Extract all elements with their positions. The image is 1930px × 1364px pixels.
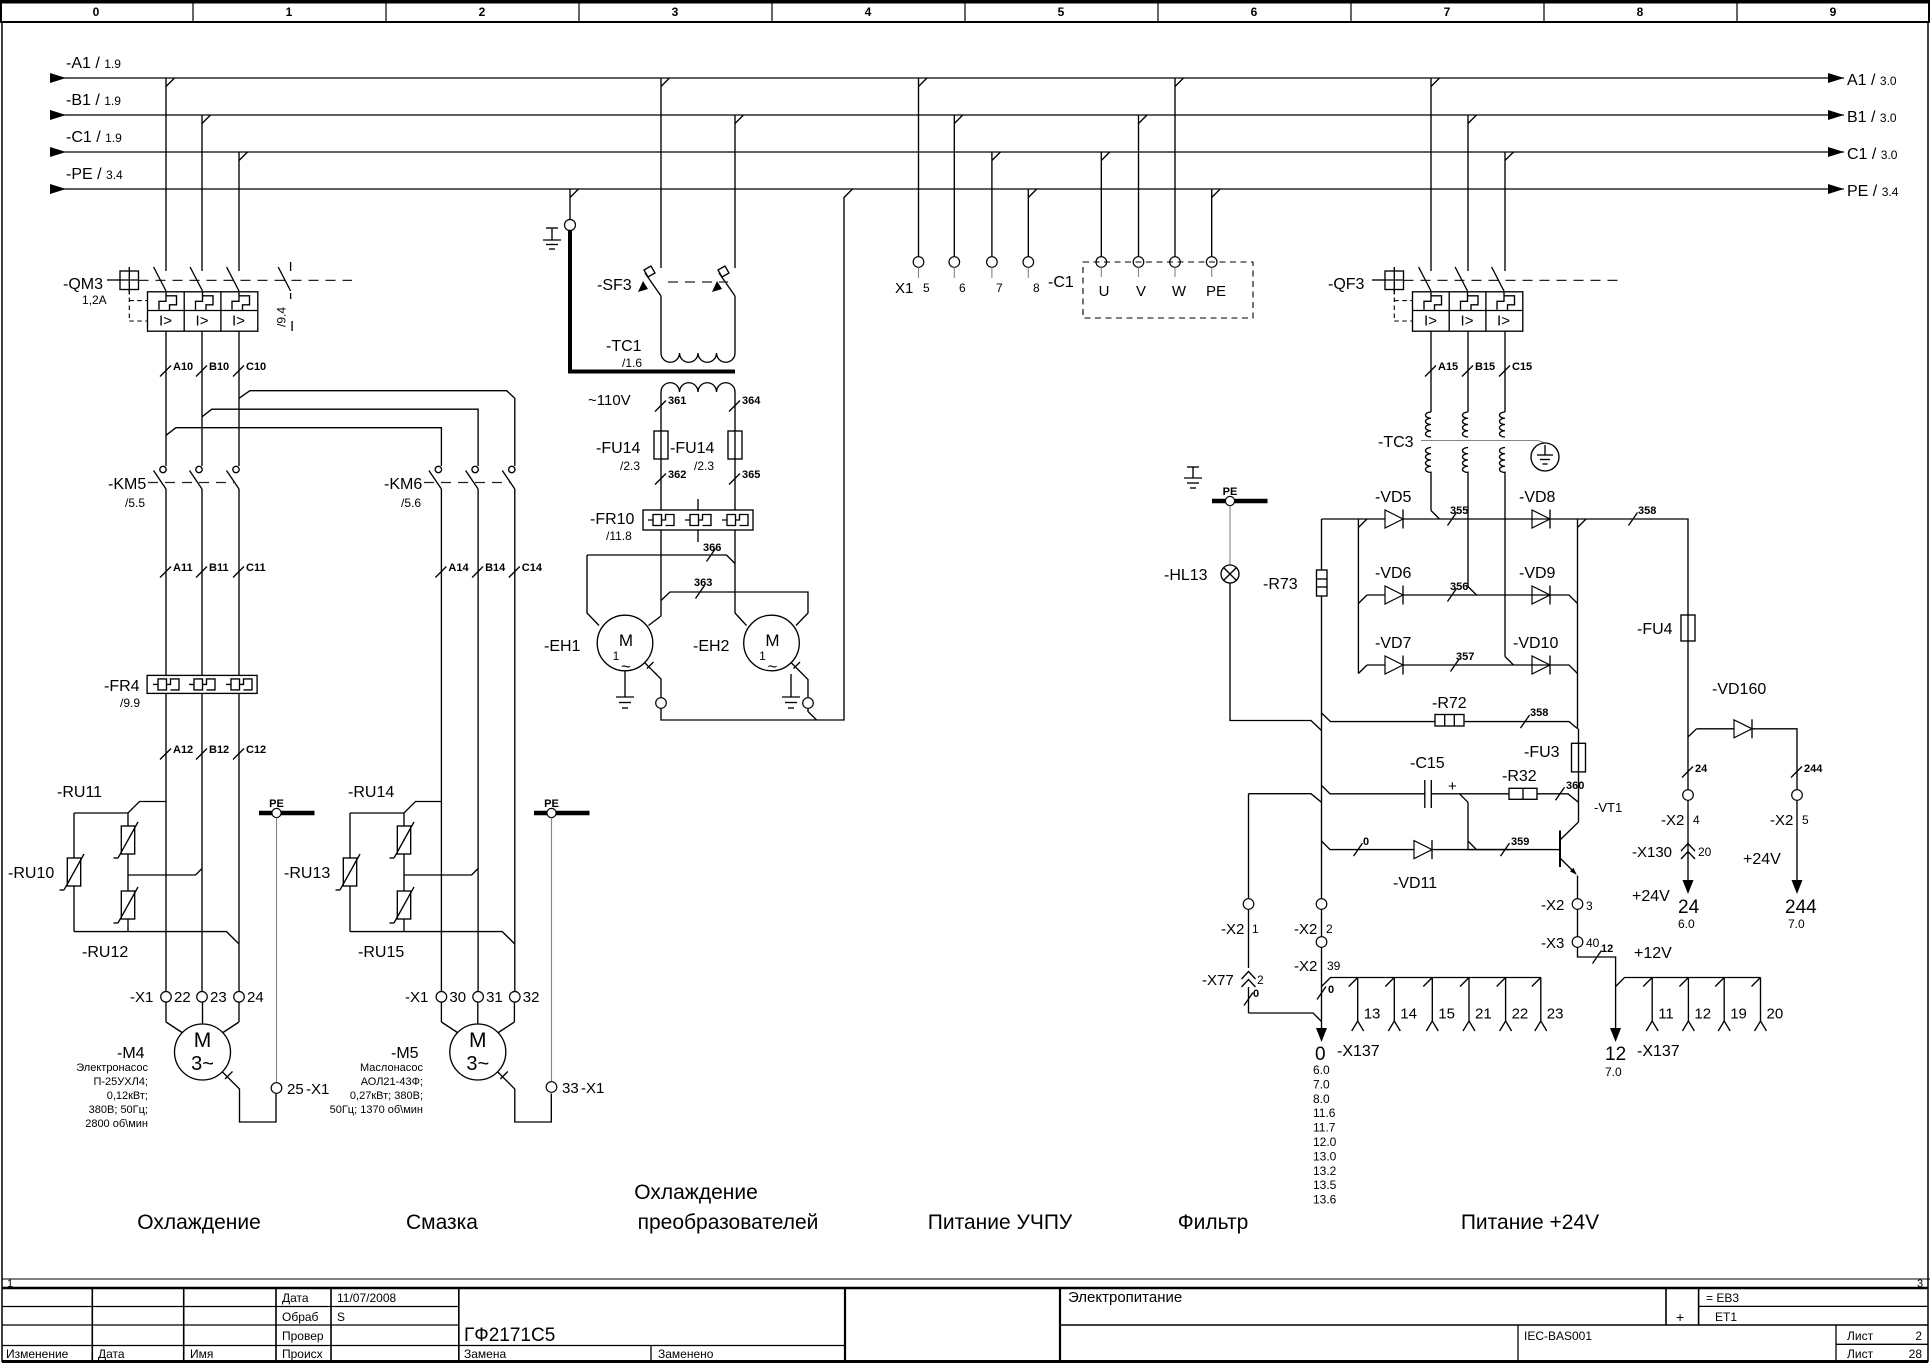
svg-text:11.7: 11.7 bbox=[1313, 1121, 1336, 1135]
svg-text:Электронасос: Электронасос bbox=[76, 1062, 148, 1074]
svg-text:-X3: -X3 bbox=[1541, 935, 1564, 952]
svg-text:33: 33 bbox=[562, 1080, 579, 1097]
svg-text:12: 12 bbox=[1694, 1006, 1711, 1023]
svg-text:380В; 50Гц;: 380В; 50Гц; bbox=[89, 1104, 148, 1116]
svg-text:-R73: -R73 bbox=[1263, 576, 1298, 593]
svg-text:23: 23 bbox=[1547, 1006, 1564, 1023]
svg-text:12: 12 bbox=[1605, 1044, 1626, 1065]
svg-text:3~: 3~ bbox=[466, 1053, 489, 1075]
svg-text:24: 24 bbox=[1695, 763, 1708, 775]
svg-text:8: 8 bbox=[1637, 5, 1644, 19]
svg-text:U: U bbox=[1099, 283, 1110, 300]
svg-text:ГФ2171С5: ГФ2171С5 bbox=[464, 1325, 555, 1346]
svg-text:24: 24 bbox=[1678, 897, 1700, 918]
svg-text:-X77: -X77 bbox=[1202, 972, 1234, 989]
svg-text:21: 21 bbox=[1475, 1006, 1492, 1023]
svg-text:19: 19 bbox=[1730, 1006, 1747, 1023]
svg-text:-X2: -X2 bbox=[1661, 812, 1684, 829]
svg-text:-X130: -X130 bbox=[1632, 844, 1672, 861]
svg-text:Обраб: Обраб bbox=[282, 1310, 319, 1324]
svg-text:22: 22 bbox=[1512, 1006, 1529, 1023]
svg-text:5: 5 bbox=[1802, 813, 1809, 827]
svg-text:-RU14: -RU14 bbox=[348, 784, 394, 801]
svg-text:A10: A10 bbox=[173, 361, 193, 373]
svg-text:32: 32 bbox=[523, 989, 540, 1006]
svg-text:1: 1 bbox=[286, 5, 293, 19]
svg-text:363: 363 bbox=[694, 577, 712, 589]
svg-text:I>: I> bbox=[196, 313, 209, 330]
svg-text:X1: X1 bbox=[895, 280, 913, 297]
svg-text:-R72: -R72 bbox=[1432, 695, 1467, 712]
svg-text:ET1: ET1 bbox=[1715, 1310, 1737, 1324]
svg-text:12.0: 12.0 bbox=[1313, 1135, 1337, 1149]
svg-text:V: V bbox=[1136, 283, 1146, 300]
svg-text:Дата: Дата bbox=[282, 1291, 309, 1305]
svg-text:I>: I> bbox=[232, 313, 245, 330]
svg-text:7.0: 7.0 bbox=[1313, 1077, 1330, 1091]
svg-text:-KM5: -KM5 bbox=[108, 476, 146, 493]
svg-text:12: 12 bbox=[1601, 943, 1613, 955]
svg-text:-HL13: -HL13 bbox=[1164, 567, 1208, 584]
svg-text:A15: A15 bbox=[1438, 361, 1458, 373]
svg-text:~: ~ bbox=[768, 657, 778, 676]
svg-text:-PE / 3.4: -PE / 3.4 bbox=[66, 166, 123, 183]
svg-text:B15: B15 bbox=[1475, 361, 1495, 373]
svg-text:13.0: 13.0 bbox=[1313, 1149, 1337, 1163]
svg-text:25: 25 bbox=[287, 1081, 304, 1098]
svg-text:-X2: -X2 bbox=[1221, 921, 1244, 938]
svg-text:11/07/2008: 11/07/2008 bbox=[337, 1291, 396, 1305]
svg-text:4: 4 bbox=[865, 5, 872, 19]
svg-text:~110V: ~110V bbox=[588, 392, 631, 409]
svg-text:+24V: +24V bbox=[1632, 888, 1670, 905]
svg-text:364: 364 bbox=[742, 395, 761, 407]
svg-text:-X2: -X2 bbox=[1770, 812, 1793, 829]
svg-text:-X1: -X1 bbox=[581, 1080, 604, 1097]
svg-text:Лист: Лист bbox=[1847, 1347, 1874, 1361]
svg-text:~: ~ bbox=[621, 657, 631, 676]
svg-text:39: 39 bbox=[1327, 959, 1341, 973]
svg-text:-C15: -C15 bbox=[1410, 755, 1445, 772]
svg-text:0: 0 bbox=[1363, 836, 1369, 848]
svg-text:Охлаждение: Охлаждение bbox=[137, 1211, 261, 1234]
svg-text:7: 7 bbox=[1444, 5, 1451, 19]
svg-text:11: 11 bbox=[1658, 1006, 1674, 1023]
svg-text:362: 362 bbox=[668, 469, 686, 481]
svg-text:B1 / 3.0: B1 / 3.0 bbox=[1847, 109, 1897, 126]
svg-text:2: 2 bbox=[479, 5, 486, 19]
svg-text:I>: I> bbox=[1461, 313, 1474, 330]
svg-text:/1.6: /1.6 bbox=[622, 356, 642, 370]
svg-text:1: 1 bbox=[759, 649, 766, 663]
svg-text:-VD160: -VD160 bbox=[1712, 681, 1766, 698]
svg-text:8: 8 bbox=[1033, 281, 1040, 295]
svg-text:361: 361 bbox=[668, 395, 686, 407]
svg-text:358: 358 bbox=[1530, 707, 1548, 719]
svg-text:4: 4 bbox=[1693, 813, 1700, 827]
svg-text:B11: B11 bbox=[209, 562, 229, 574]
svg-text:+24V: +24V bbox=[1743, 851, 1781, 868]
svg-text:-R32: -R32 bbox=[1502, 768, 1537, 785]
svg-text:PE: PE bbox=[1206, 283, 1226, 300]
svg-text:-EH2: -EH2 bbox=[693, 638, 730, 655]
svg-text:-QF3: -QF3 bbox=[1328, 276, 1365, 293]
svg-text:B14: B14 bbox=[485, 562, 506, 574]
svg-text:-RU11: -RU11 bbox=[57, 784, 102, 801]
svg-text:3: 3 bbox=[1586, 899, 1593, 913]
svg-text:-RU13: -RU13 bbox=[284, 865, 330, 882]
svg-text:6.0: 6.0 bbox=[1313, 1063, 1330, 1077]
svg-text:-QM3: -QM3 bbox=[63, 276, 103, 293]
svg-text:244: 244 bbox=[1804, 763, 1823, 775]
svg-text:Происх: Происх bbox=[282, 1347, 323, 1361]
svg-text:A14: A14 bbox=[448, 562, 469, 574]
svg-text:8.0: 8.0 bbox=[1313, 1092, 1330, 1106]
svg-text:Маслонасос: Маслонасос bbox=[360, 1062, 423, 1074]
svg-text:-X137: -X137 bbox=[1637, 1043, 1680, 1060]
svg-text:15: 15 bbox=[1438, 1006, 1455, 1023]
svg-text:0,27кВт; 380В;: 0,27кВт; 380В; bbox=[350, 1090, 423, 1102]
svg-text:/2.3: /2.3 bbox=[620, 459, 640, 473]
svg-text:50Гц; 1370 об\мин: 50Гц; 1370 об\мин bbox=[330, 1104, 423, 1116]
svg-text:7.0: 7.0 bbox=[1605, 1065, 1622, 1079]
svg-text:-VD10: -VD10 bbox=[1513, 635, 1558, 652]
svg-text:-VD7: -VD7 bbox=[1375, 635, 1412, 652]
svg-text:31: 31 bbox=[486, 989, 503, 1006]
svg-text:28: 28 bbox=[1909, 1347, 1923, 1361]
svg-text:-VD5: -VD5 bbox=[1375, 489, 1412, 506]
svg-text:0: 0 bbox=[93, 5, 100, 19]
svg-text:0,12кВт;: 0,12кВт; bbox=[107, 1090, 148, 1102]
svg-text:M: M bbox=[194, 1029, 212, 1052]
svg-text:B10: B10 bbox=[209, 361, 229, 373]
svg-text:/9.4: /9.4 bbox=[275, 307, 289, 327]
svg-text:-X2: -X2 bbox=[1294, 921, 1317, 938]
svg-text:Изменение: Изменение bbox=[6, 1347, 69, 1361]
svg-text:244: 244 bbox=[1785, 897, 1817, 918]
svg-text:Лист: Лист bbox=[1847, 1329, 1874, 1343]
svg-text:A11: A11 bbox=[173, 562, 193, 574]
svg-text:C15: C15 bbox=[1512, 361, 1532, 373]
svg-text:-X2: -X2 bbox=[1541, 897, 1564, 914]
svg-text:5: 5 bbox=[1058, 5, 1065, 19]
svg-text:-C1 / 1.9: -C1 / 1.9 bbox=[66, 129, 122, 146]
svg-text:23: 23 bbox=[210, 989, 227, 1006]
svg-text:S: S bbox=[337, 1310, 345, 1324]
svg-text:-M5: -M5 bbox=[391, 1045, 419, 1062]
svg-text:-X1: -X1 bbox=[130, 989, 153, 1006]
svg-text:/5.5: /5.5 bbox=[125, 496, 145, 510]
svg-text:преобразователей: преобразователей bbox=[638, 1211, 819, 1234]
svg-text:6.0: 6.0 bbox=[1678, 917, 1695, 931]
svg-text:C10: C10 bbox=[246, 361, 266, 373]
svg-text:-FU14: -FU14 bbox=[596, 440, 641, 457]
svg-text:13.6: 13.6 bbox=[1313, 1193, 1337, 1207]
svg-text:-X1: -X1 bbox=[306, 1081, 329, 1098]
svg-text:M: M bbox=[619, 631, 633, 650]
svg-text:2800 об\мин: 2800 об\мин bbox=[85, 1118, 148, 1130]
svg-text:-C1: -C1 bbox=[1048, 274, 1074, 291]
svg-text:-SF3: -SF3 bbox=[597, 277, 632, 294]
svg-text:-M4: -M4 bbox=[117, 1045, 145, 1062]
svg-text:13: 13 bbox=[1364, 1006, 1381, 1023]
svg-text:/2.3: /2.3 bbox=[694, 459, 714, 473]
svg-text:PE / 3.4: PE / 3.4 bbox=[1847, 183, 1899, 200]
svg-text:M: M bbox=[469, 1029, 487, 1052]
svg-text:-X1: -X1 bbox=[405, 989, 428, 1006]
svg-text:7: 7 bbox=[996, 281, 1003, 295]
svg-text:= EB3: = EB3 bbox=[1706, 1291, 1739, 1305]
svg-text:-VD11: -VD11 bbox=[1393, 875, 1437, 892]
svg-text:-VD8: -VD8 bbox=[1519, 489, 1556, 506]
svg-text:20: 20 bbox=[1767, 1006, 1784, 1023]
svg-text:2: 2 bbox=[1257, 973, 1264, 987]
svg-text:-VD6: -VD6 bbox=[1375, 565, 1412, 582]
svg-text:356: 356 bbox=[1450, 581, 1468, 593]
svg-text:11.6: 11.6 bbox=[1313, 1106, 1336, 1120]
svg-text:Питание +24V: Питание +24V bbox=[1461, 1211, 1599, 1234]
svg-text:Электропитание: Электропитание bbox=[1068, 1289, 1182, 1306]
svg-text:C1 / 3.0: C1 / 3.0 bbox=[1847, 146, 1898, 163]
svg-text:-RU10: -RU10 bbox=[8, 865, 54, 882]
svg-text:Провер: Провер bbox=[282, 1329, 324, 1343]
svg-text:365: 365 bbox=[742, 469, 760, 481]
svg-text:+12V: +12V bbox=[1634, 945, 1672, 962]
svg-text:IEC-BAS001: IEC-BAS001 bbox=[1524, 1329, 1592, 1343]
svg-text:-TC3: -TC3 bbox=[1378, 434, 1414, 451]
svg-text:+: + bbox=[1676, 1309, 1684, 1325]
svg-text:B12: B12 bbox=[209, 744, 229, 756]
svg-text:-KM6: -KM6 bbox=[384, 476, 422, 493]
svg-text:I>: I> bbox=[1497, 313, 1510, 330]
svg-text:355: 355 bbox=[1450, 505, 1468, 517]
svg-text:40: 40 bbox=[1586, 936, 1600, 950]
svg-text:M: M bbox=[765, 631, 779, 650]
svg-text:357: 357 bbox=[1456, 651, 1474, 663]
svg-text:-TC1: -TC1 bbox=[606, 338, 642, 355]
svg-text:5: 5 bbox=[923, 281, 930, 295]
svg-text:I>: I> bbox=[159, 313, 172, 330]
svg-text:2: 2 bbox=[1915, 1329, 1922, 1343]
svg-text:-X137: -X137 bbox=[1337, 1043, 1380, 1060]
svg-text:Заменено: Заменено bbox=[658, 1347, 714, 1361]
svg-text:АОЛ21-43Ф;: АОЛ21-43Ф; bbox=[361, 1076, 423, 1088]
svg-text:Охлаждение: Охлаждение bbox=[634, 1181, 758, 1204]
svg-text:-EH1: -EH1 bbox=[544, 638, 581, 655]
svg-text:A12: A12 bbox=[173, 744, 193, 756]
svg-text:0: 0 bbox=[1315, 1044, 1326, 1065]
svg-text:A1 / 3.0: A1 / 3.0 bbox=[1847, 72, 1897, 89]
svg-text:Имя: Имя bbox=[190, 1347, 213, 1361]
svg-text:C11: C11 bbox=[246, 562, 266, 574]
svg-text:-B1 / 1.9: -B1 / 1.9 bbox=[66, 92, 121, 109]
svg-text:6: 6 bbox=[1251, 5, 1258, 19]
svg-text:366: 366 bbox=[703, 542, 721, 554]
svg-text:W: W bbox=[1172, 283, 1187, 300]
svg-text:/9.9: /9.9 bbox=[120, 696, 140, 710]
svg-text:Питание УЧПУ: Питание УЧПУ bbox=[928, 1211, 1073, 1234]
svg-text:20: 20 bbox=[1698, 845, 1712, 859]
svg-text:Дата: Дата bbox=[98, 1347, 125, 1361]
svg-text:/5.6: /5.6 bbox=[401, 496, 421, 510]
svg-text:14: 14 bbox=[1400, 1006, 1417, 1023]
svg-text:24: 24 bbox=[247, 989, 264, 1006]
svg-text:-X2: -X2 bbox=[1294, 958, 1317, 975]
svg-text:7.0: 7.0 bbox=[1788, 917, 1805, 931]
svg-text:13.2: 13.2 bbox=[1313, 1164, 1337, 1178]
svg-text:+: + bbox=[1448, 778, 1457, 795]
svg-text:-FU4: -FU4 bbox=[1637, 621, 1673, 638]
svg-text:П-25УХЛ4;: П-25УХЛ4; bbox=[93, 1076, 148, 1088]
svg-text:30: 30 bbox=[449, 989, 466, 1006]
svg-text:-VT1: -VT1 bbox=[1594, 800, 1622, 815]
svg-text:-RU12: -RU12 bbox=[82, 944, 128, 961]
svg-text:Фильтр: Фильтр bbox=[1178, 1211, 1249, 1234]
svg-text:1,2A: 1,2A bbox=[82, 293, 107, 307]
svg-text:0: 0 bbox=[1253, 988, 1259, 1000]
svg-text:0: 0 bbox=[1328, 984, 1334, 996]
svg-text:-FR10: -FR10 bbox=[590, 511, 635, 528]
svg-text:C14: C14 bbox=[522, 562, 543, 574]
svg-text:-RU15: -RU15 bbox=[358, 944, 404, 961]
svg-text:22: 22 bbox=[174, 989, 191, 1006]
svg-text:-FU14: -FU14 bbox=[670, 440, 715, 457]
svg-text:-FU3: -FU3 bbox=[1524, 744, 1560, 761]
svg-text:6: 6 bbox=[959, 281, 966, 295]
svg-text:-A1 / 1.9: -A1 / 1.9 bbox=[66, 55, 121, 72]
svg-text:9: 9 bbox=[1830, 5, 1837, 19]
svg-text:3~: 3~ bbox=[191, 1053, 214, 1075]
svg-text:3: 3 bbox=[672, 5, 679, 19]
svg-text:-VD9: -VD9 bbox=[1519, 565, 1556, 582]
svg-text:2: 2 bbox=[1326, 922, 1333, 936]
svg-text:Смазка: Смазка bbox=[406, 1211, 478, 1234]
svg-text:360: 360 bbox=[1566, 780, 1584, 792]
svg-text:358: 358 bbox=[1638, 505, 1656, 517]
svg-text:13.5: 13.5 bbox=[1313, 1178, 1337, 1192]
svg-text:-FR4: -FR4 bbox=[104, 678, 140, 695]
svg-text:359: 359 bbox=[1511, 836, 1529, 848]
svg-text:/11.8: /11.8 bbox=[606, 529, 632, 543]
svg-text:1: 1 bbox=[613, 649, 620, 663]
svg-text:I>: I> bbox=[1424, 313, 1437, 330]
svg-text:C12: C12 bbox=[246, 744, 266, 756]
svg-text:Замена: Замена bbox=[464, 1347, 506, 1361]
svg-text:1: 1 bbox=[1252, 922, 1259, 936]
